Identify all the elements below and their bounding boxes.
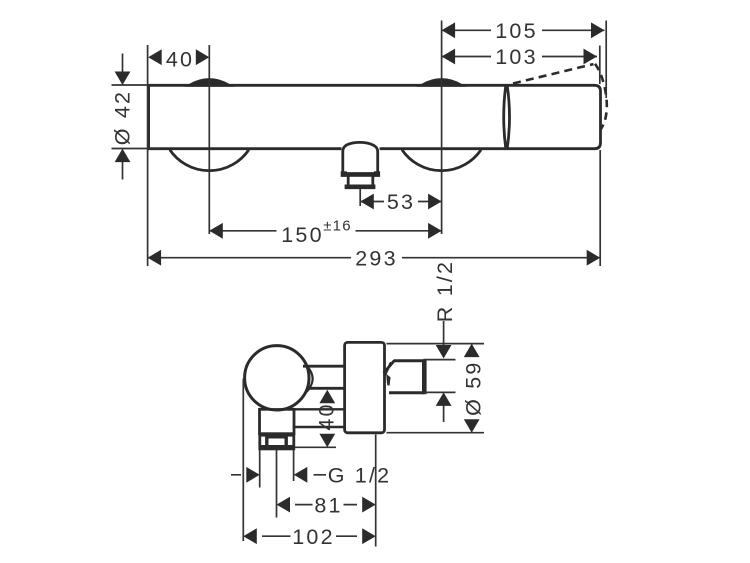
extension line 105 right [605, 21, 607, 99]
fitting body below knob [260, 409, 295, 433]
arrowheads (top view) [115, 22, 605, 358]
dim line 103 [442, 56, 597, 58]
arrow 103 right [584, 49, 598, 65]
dim line 105 [442, 29, 605, 31]
spout nut thick bottom [345, 185, 376, 190]
R1/2 lower leader [443, 406, 445, 423]
extension outlet top [424, 359, 456, 361]
extension line right mount centerline [441, 21, 443, 235]
bar right edge joint curve [504, 85, 506, 148]
svg-text:G 1/2: G 1/2 [328, 464, 392, 488]
extension knob left [242, 379, 244, 542]
right escutcheon bottom arc [402, 150, 481, 171]
thin extension and dimension lines (top view) [112, 21, 607, 346]
knob circle [245, 346, 309, 410]
svg-text:±16: ±16 [323, 217, 352, 234]
dashed swivel arc at right end [595, 64, 607, 130]
G1/2 dim tail and line [231, 474, 326, 476]
extension 40 bottom [294, 446, 336, 448]
dim line Ø42 vertical [122, 54, 124, 180]
arrow 40 left [148, 49, 162, 65]
svg-text:40: 40 [166, 47, 194, 71]
G1/2 nut inner [267, 437, 286, 447]
arrowheads (bottom view) [243, 344, 479, 544]
arrow G1/2 right outside [294, 467, 308, 483]
outlet end face edge [422, 359, 427, 394]
spout step left nub [341, 171, 347, 177]
cartridge pipe bottom line [308, 387, 345, 390]
left escutcheon bottom arc [170, 150, 249, 171]
extension outlet bottom [425, 391, 456, 393]
arrow G1/2 left outside [246, 467, 260, 483]
arrow Ø59 bottom [464, 419, 480, 433]
svg-text:R 1/2: R 1/2 [433, 260, 457, 322]
arrow Ø59 top [464, 344, 480, 358]
arrow 102 left [243, 528, 256, 544]
handle base piece (right end) [507, 85, 600, 148]
extension line bar right below [599, 150, 601, 266]
svg-text:40: 40 [315, 402, 339, 430]
svg-text:102: 102 [292, 525, 334, 549]
extension line bar left [147, 45, 149, 266]
arrow 105 right [591, 22, 605, 38]
dim line 53 [360, 201, 441, 203]
dim line 293 [148, 257, 601, 259]
svg-text:Ø 59: Ø 59 [461, 360, 485, 415]
arrow Ø42 top [115, 72, 131, 86]
outlet slant edge B [384, 362, 391, 376]
81 dim line [295, 504, 357, 506]
mixer bar body (front view) [149, 85, 506, 148]
arrow 40 bottom [319, 434, 335, 448]
arrow Ø42 bottom [115, 149, 131, 163]
svg-text:103: 103 [495, 45, 537, 69]
arrow R1/2 down [436, 345, 452, 359]
svg-text:150: 150 [281, 223, 323, 247]
extension line spout centerline [359, 189, 361, 206]
arrow R1/2 up [436, 392, 452, 406]
R 1/2 leader line upper [443, 321, 445, 346]
arrow 40 top [319, 390, 335, 404]
arrow 81 right [362, 497, 376, 513]
extension line left mount centerline [208, 45, 210, 234]
arrow 102 right [362, 528, 376, 544]
extension line 103 right [599, 46, 601, 85]
extension outlet axis below [375, 435, 377, 547]
svg-text:81: 81 [314, 493, 342, 517]
spout step [341, 172, 379, 175]
svg-text:293: 293 [355, 246, 397, 270]
arrow 53 right [428, 194, 442, 210]
knob lip arc [305, 364, 313, 394]
arrow 150 left [209, 223, 223, 239]
extension lines diameter 42 [112, 85, 161, 149]
arrow 81 left [277, 497, 291, 513]
arrow 53 left [360, 194, 374, 210]
G1/2 nut bottom bar [261, 445, 294, 449]
dim line 150 [209, 230, 441, 232]
svg-text:105: 105 [495, 19, 537, 43]
dashed leader line to 103 arrow [513, 64, 594, 83]
svg-text:Ø 42: Ø 42 [111, 90, 135, 145]
body lower line [294, 426, 345, 428]
arrow 105 left [442, 22, 456, 38]
wall flange (side view) [345, 342, 385, 432]
cartridge pipe top line [303, 365, 345, 368]
svg-text:53: 53 [387, 190, 415, 214]
102 dim line [262, 535, 357, 537]
thin extension and dimension lines (bottom view) [231, 344, 484, 547]
arrow 40 right [196, 49, 210, 65]
outlet connector body [389, 361, 424, 393]
arrow 293 left [148, 250, 162, 266]
spout lower nut box [348, 175, 373, 186]
extension fitting centerline [276, 449, 278, 518]
left escutcheon top bump [190, 80, 230, 86]
arrow 293 right [587, 250, 601, 266]
hose outlet spout below bar [343, 142, 378, 173]
extension flange top [387, 343, 485, 345]
extension G1/2 left [259, 450, 261, 488]
outlet dark tear [386, 374, 390, 386]
G1/2 nut outer [260, 435, 294, 449]
extension G1/2 right [293, 450, 295, 482]
extension flange bottom [387, 432, 485, 434]
arrow 103 left [442, 49, 456, 65]
body top line [259, 408, 345, 410]
outlet slant edge A [384, 360, 395, 373]
spout step right nub [374, 171, 380, 177]
right escutcheon top bump [422, 80, 462, 86]
arrow 150 right [428, 223, 442, 239]
